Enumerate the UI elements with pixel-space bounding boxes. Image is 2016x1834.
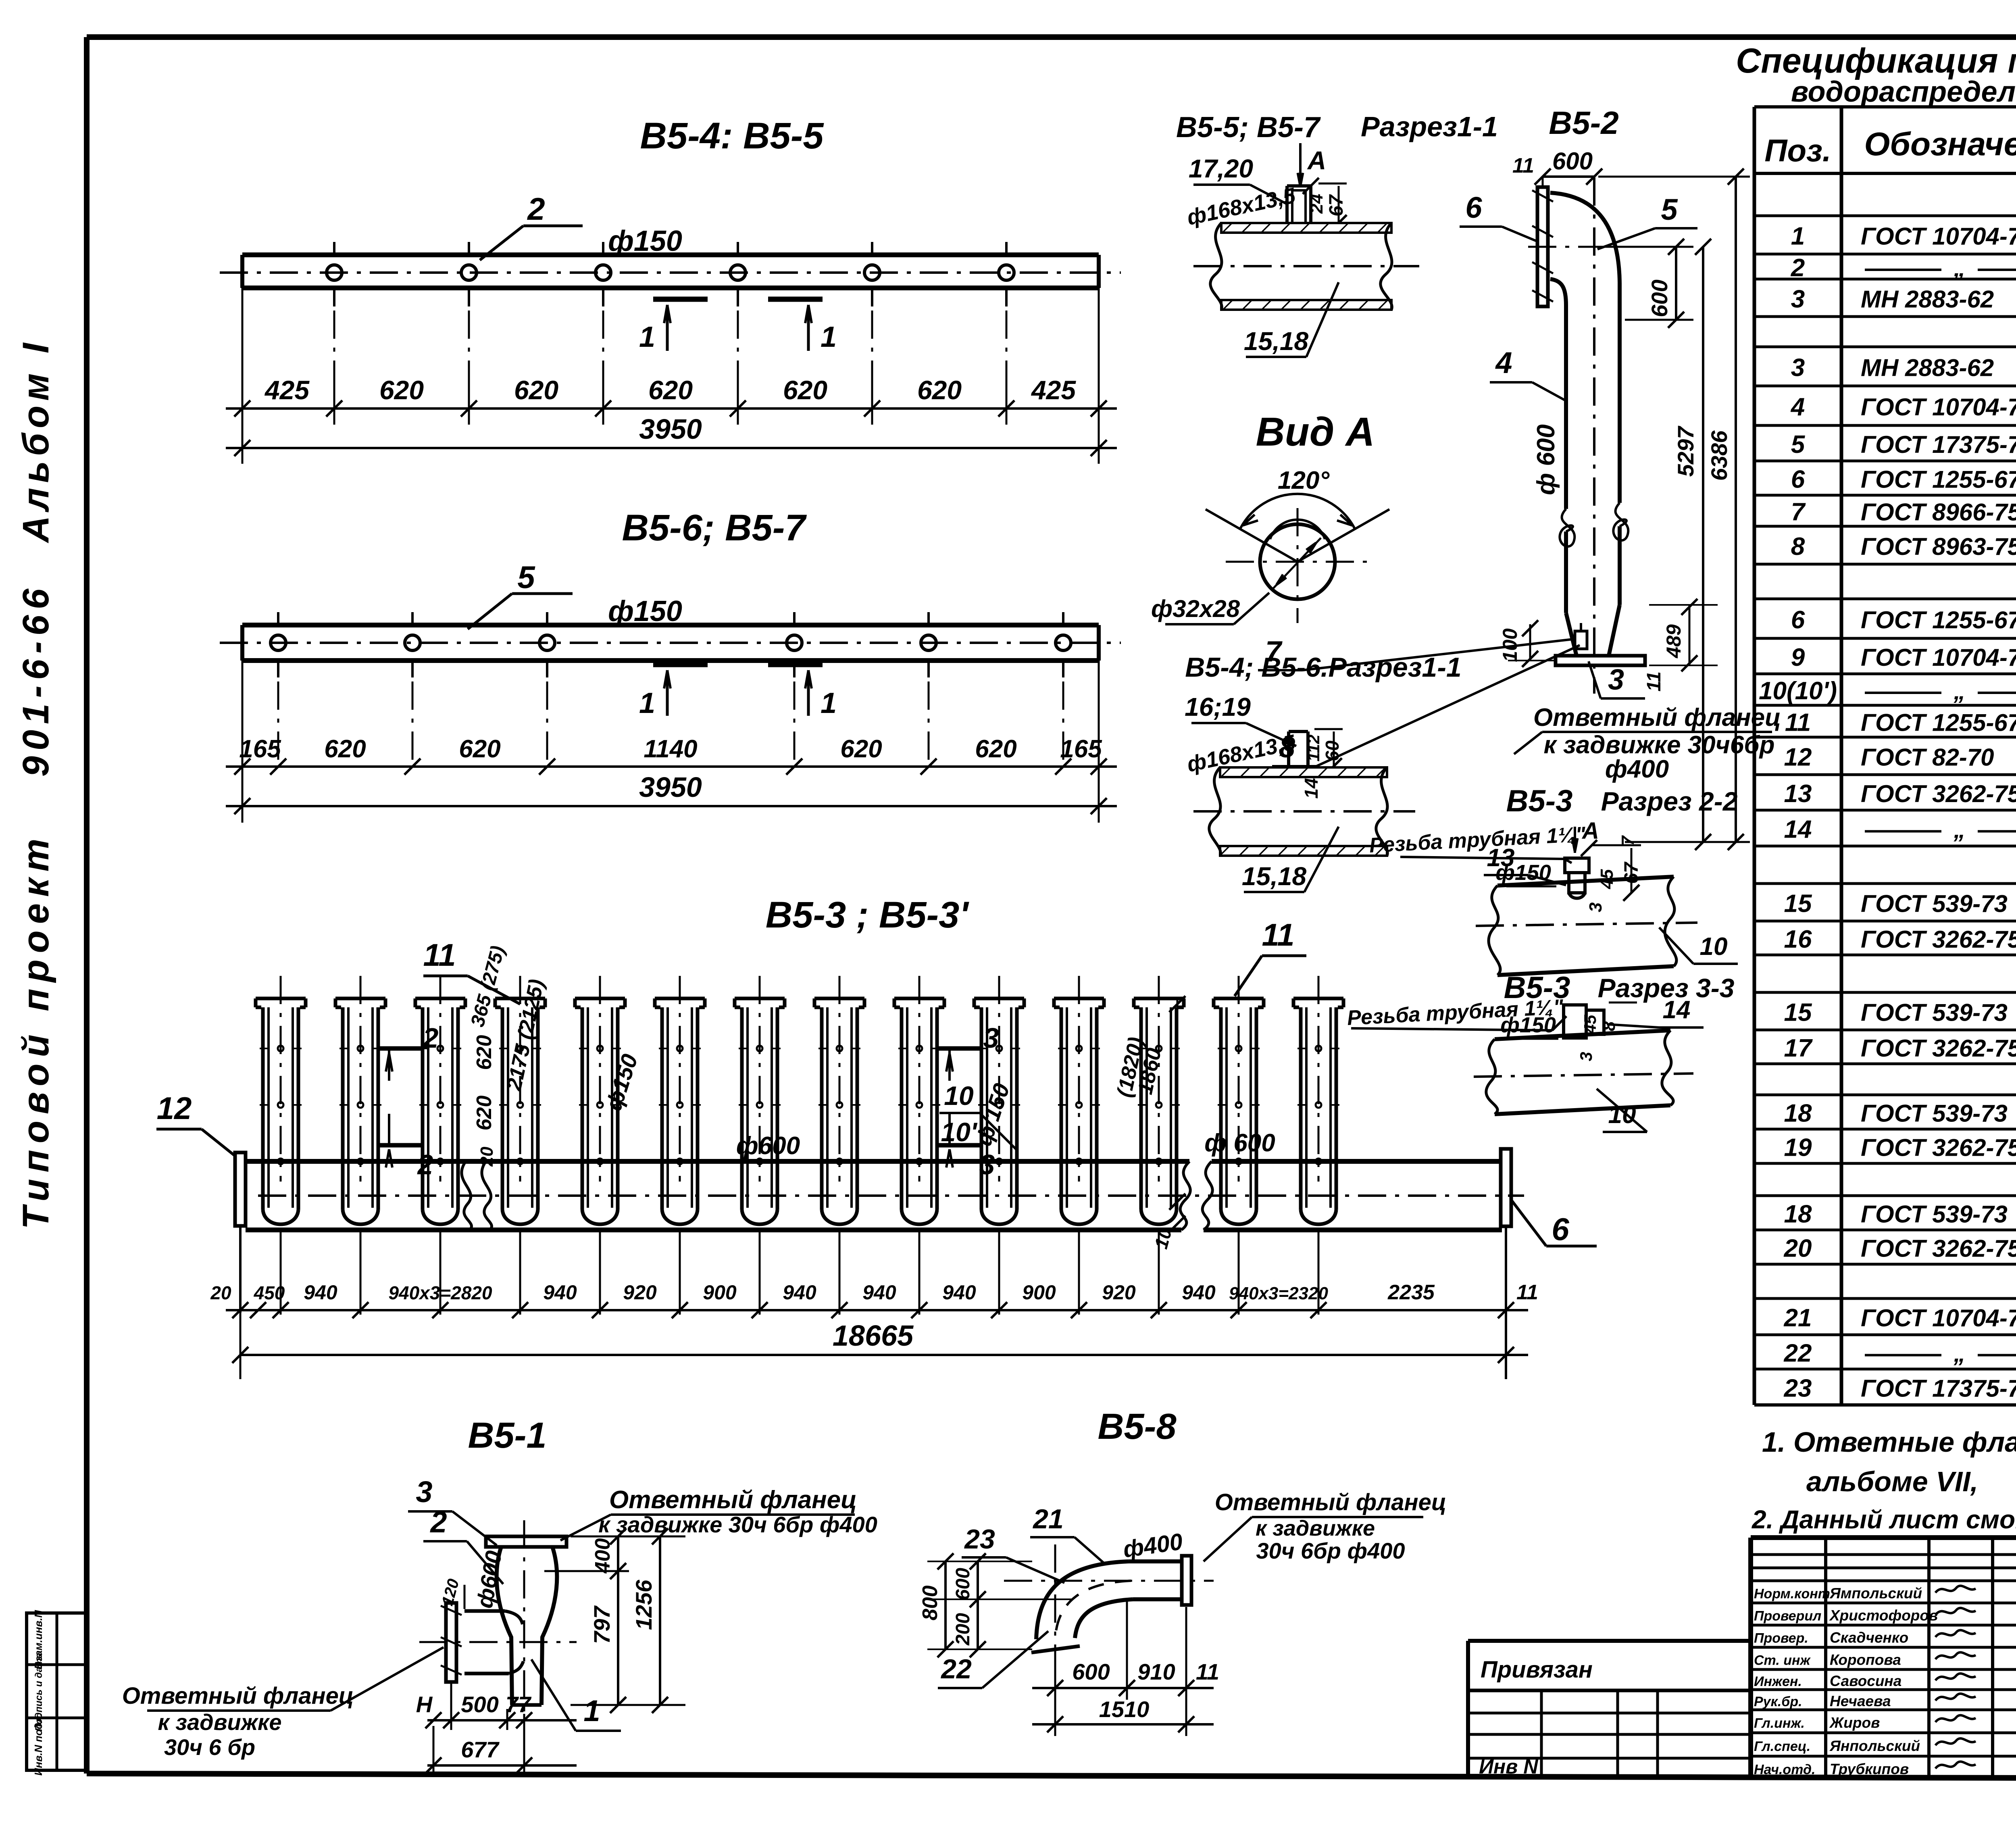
svg-text:11: 11 — [423, 937, 456, 973]
dimension extension lines B5-6/7 — [242, 661, 244, 823]
svg-text:Янпольский: Янпольский — [1829, 1738, 1920, 1754]
svg-text:В5-4: В5-5: В5-4: В5-5 — [640, 115, 824, 156]
section mark 3-3 upper — [937, 1046, 982, 1051]
svg-text:425: 425 — [264, 375, 310, 405]
svg-text:900: 900 — [703, 1281, 737, 1304]
svg-text:ф150: ф150 — [1500, 1013, 1556, 1037]
section mark 2-2 lower — [377, 1143, 421, 1148]
B5-2 elbow outer arc — [1550, 193, 1620, 282]
nozzle hole 5 on B5-4/B5-5 — [864, 265, 880, 280]
B5-1 horizontal dim line top — [571, 1536, 685, 1538]
svg-text:Н: Н — [416, 1692, 433, 1717]
B5-2 elbow inner arc — [1550, 279, 1566, 305]
svg-text:620: 620 — [917, 375, 962, 405]
svg-text:ГОСТ 3262-75: ГОСТ 3262-75 — [1861, 1035, 2016, 1062]
svg-text:11: 11 — [1516, 1281, 1538, 1304]
svg-text:водораспределительной системы: водораспределительной системы — [1791, 76, 2016, 108]
svg-text:60: 60 — [1322, 740, 1343, 761]
svg-text:3: 3 — [1586, 902, 1606, 912]
svg-text:940: 940 — [783, 1281, 816, 1304]
B5-2 elbow center horizontal centerline — [1528, 246, 1669, 248]
B5-8 right flange (pos 11) — [1182, 1556, 1191, 1605]
leader label 5 (pipe 168) — [468, 594, 512, 629]
svg-text:ГОСТ 10704-76: ГОСТ 10704-76 — [1861, 1305, 2016, 1332]
svg-text:ГОСТ 3262-75: ГОСТ 3262-75 — [1861, 780, 2016, 807]
manifold left end flange (pos 12) — [235, 1153, 246, 1226]
svg-text:30ч 6бр ф400: 30ч 6бр ф400 — [1256, 1538, 1405, 1563]
svg-text:10(10'): 10(10') — [1759, 677, 1837, 705]
svg-text:1: 1 — [1791, 223, 1805, 250]
svg-text:ф150: ф150 — [608, 225, 682, 257]
nozzle dims (3-3) — [1609, 1002, 1637, 1004]
nozzle hole 3 on B5-4/B5-5 — [596, 265, 611, 280]
svg-text:1256: 1256 — [631, 1580, 656, 1630]
svg-text:910: 910 — [1137, 1659, 1175, 1684]
svg-text:В5-3 ; В5-3': В5-3 ; В5-3' — [766, 894, 970, 936]
nozzle pipe 32 (pos 16,19) — [1287, 732, 1290, 767]
B5-8 left dims 800 600 200 — [927, 1561, 1032, 1562]
svg-text:Ответный фланец: Ответный фланец — [122, 1683, 354, 1709]
pipe break curl right (3-3) — [1662, 1030, 1673, 1105]
svg-text:21: 21 — [1032, 1504, 1064, 1534]
svg-text:Ответный фланец: Ответный фланец — [1215, 1489, 1447, 1515]
svg-text:20: 20 — [210, 1282, 231, 1303]
svg-text:А: А — [1307, 146, 1326, 175]
pipe cylinder (Razrez 3-3) — [1495, 1030, 1670, 1039]
svg-text:900: 900 — [1022, 1281, 1056, 1304]
privyazan table columns — [1540, 1690, 1543, 1779]
overall dimension 3950 line — [226, 447, 1117, 449]
svg-text:Ответный фланец: Ответный фланец — [609, 1486, 857, 1514]
nozzle hole 1 on B5-4/B5-5 — [327, 265, 342, 280]
B5-1 bottom dim H 500 77 — [427, 1719, 577, 1721]
nozzle dims (2-2) — [1593, 844, 1641, 846]
svg-text:13: 13 — [1784, 780, 1812, 808]
B5-2 dim 100 — [1529, 624, 1531, 661]
spec table grid — [1753, 107, 1756, 1405]
svg-text:11: 11 — [1262, 917, 1295, 952]
svg-text:ф150: ф150 — [1495, 861, 1551, 885]
svg-text:Гл.инж.: Гл.инж. — [1754, 1716, 1805, 1731]
svg-text:112: 112 — [1304, 735, 1323, 762]
svg-text:30ч 6 бр: 30ч 6 бр — [164, 1734, 255, 1760]
riser 7 (pipe 159) on manifold — [735, 997, 785, 1000]
svg-text:Проверил: Проверил — [1754, 1609, 1821, 1624]
B5-1 dim 1256 — [659, 1536, 661, 1705]
svg-text:Скадченко: Скадченко — [1830, 1630, 1908, 1646]
svg-text:24: 24 — [1307, 194, 1327, 214]
svg-text:45: 45 — [1581, 1015, 1599, 1034]
pipe B5-6/B5-7 body — [242, 623, 1099, 627]
pipe end break right (lower razrez) — [1376, 767, 1387, 856]
B5-8 elbow dashed inner curve — [1055, 1581, 1131, 1638]
svg-text:Инжен.: Инжен. — [1754, 1674, 1802, 1689]
svg-text:14: 14 — [1301, 778, 1322, 798]
riser 10 (pipe 159) on manifold — [974, 997, 1024, 1000]
title block top small rows — [1751, 1553, 2016, 1556]
svg-text:11: 11 — [1196, 1659, 1219, 1684]
section mark 1-1 left (B5-4/5) — [653, 297, 708, 302]
svg-text:17: 17 — [1784, 1034, 1813, 1062]
riser 3 (pipe 159) on manifold — [415, 997, 465, 1000]
B5-8 total dim 1510 — [1032, 1723, 1214, 1726]
svg-text:Типовой проект: Типовой проект — [15, 832, 56, 1230]
svg-text:„: „ — [1954, 678, 1966, 704]
svg-text:ГОСТ 3262-75: ГОСТ 3262-75 — [1861, 1235, 2016, 1262]
title block stamp columns — [1824, 1538, 1827, 1779]
section mark 2-2 upper — [377, 1046, 421, 1051]
svg-text:6386: 6386 — [1706, 430, 1732, 481]
svg-text:ГОСТ 10704-76: ГОСТ 10704-76 — [1861, 644, 2016, 671]
sidebar bottom mini table — [27, 1613, 87, 1770]
pipe centerline (2-2) — [1476, 923, 1697, 926]
svg-text:6: 6 — [1465, 191, 1482, 224]
svg-text:3: 3 — [1577, 1052, 1595, 1061]
svg-text:3: 3 — [979, 1149, 995, 1180]
nozzle hole 3 on B5-6/B5-7 — [539, 635, 555, 650]
svg-text:2. Данный лист смотреть сов: 2. Данный лист смотреть совместно с лист… — [1752, 1505, 2016, 1534]
section mark 1-1 right (B5-4/5) — [768, 297, 823, 302]
svg-text:1: 1 — [639, 321, 655, 353]
svg-text:ГОСТ 1255-67: ГОСТ 1255-67 — [1861, 709, 2016, 736]
pipe cylinder (Razrez 2-2) — [1497, 877, 1674, 886]
svg-text:23: 23 — [964, 1524, 995, 1555]
svg-text:ГОСТ 3262-75: ГОСТ 3262-75 — [1861, 1134, 2016, 1161]
svg-text:Провер.: Провер. — [1754, 1631, 1808, 1646]
svg-text:Жиров: Жиров — [1829, 1715, 1880, 1731]
dimension line 165/620/1140 B5-6/7 — [226, 765, 1117, 768]
svg-text:11: 11 — [1643, 671, 1665, 692]
svg-text:620: 620 — [473, 1096, 496, 1131]
svg-text:940: 940 — [942, 1281, 976, 1304]
riser 8 (pipe 159) on manifold — [814, 997, 864, 1000]
svg-text:20: 20 — [477, 1146, 497, 1167]
nozzle hole 2 on B5-6/B5-7 — [405, 635, 420, 650]
svg-text:ГОСТ 1255-67: ГОСТ 1255-67 — [1861, 466, 2016, 493]
svg-text:7: 7 — [1791, 498, 1806, 526]
svg-text:10': 10' — [941, 1117, 977, 1147]
svg-text:Ст. инж: Ст. инж — [1754, 1653, 1811, 1668]
svg-text:920: 920 — [1102, 1281, 1136, 1304]
svg-text:3: 3 — [983, 1022, 999, 1054]
B5-1 bottom dim 677 — [427, 1764, 577, 1767]
B5-8 centerline horizontal — [1004, 1580, 1214, 1582]
svg-text:450: 450 — [254, 1282, 285, 1303]
svg-text:2: 2 — [422, 1022, 439, 1054]
svg-text:альбоме VII,: альбоме VII, — [1806, 1466, 1978, 1497]
svg-text:Разрез 2-2: Разрез 2-2 — [1601, 786, 1738, 816]
Vid A ф32 diagonal dimension — [1272, 538, 1321, 590]
svg-text:3950: 3950 — [639, 413, 702, 445]
pipe wall hatched (Razrez 1-1) — [1221, 223, 1391, 233]
svg-text:В5-4; В5-6.Разрез1-1: В5-4; В5-6.Разрез1-1 — [1185, 652, 1461, 683]
svg-text:ГОСТ 539-73: ГОСТ 539-73 — [1861, 999, 2008, 1026]
Vid A dimension arc — [1240, 494, 1355, 529]
svg-text:к задвижке 30ч 6бр ф400: к задвижке 30ч 6бр ф400 — [598, 1512, 877, 1537]
pipe break curl left (2-2) — [1489, 886, 1500, 975]
nozzle pipe 32 (pos 17,20) — [1285, 186, 1289, 223]
svg-text:1140: 1140 — [644, 735, 697, 763]
B5-8 elbow inner arc — [1075, 1599, 1133, 1638]
svg-text:МН 2883-62: МН 2883-62 — [1861, 354, 1994, 381]
svg-text:800: 800 — [918, 1586, 942, 1621]
svg-text:Альбом I: Альбом I — [15, 338, 56, 544]
svg-text:940: 940 — [1182, 1281, 1216, 1304]
nozzle hole 4 on B5-4/B5-5 — [730, 265, 746, 280]
nozzle pipe32 with thread (2-2) — [1565, 858, 1589, 873]
B5-2 pipe break loops — [1560, 509, 1574, 546]
svg-text:18: 18 — [1784, 1200, 1812, 1228]
svg-text:500: 500 — [461, 1692, 498, 1717]
title block outer frame — [1751, 1535, 2016, 1540]
svg-text:23: 23 — [1784, 1375, 1812, 1403]
svg-text:19: 19 — [1784, 1134, 1812, 1162]
svg-text:17,20: 17,20 — [1189, 154, 1253, 183]
B5-2 right dims 5297 6386 — [1702, 247, 1704, 842]
pipe centerline (lower razrez) — [1193, 810, 1415, 813]
svg-text:ф600: ф600 — [736, 1132, 800, 1160]
B5-2 vertical centerline — [1593, 177, 1595, 694]
B5-8 stub end line — [1031, 1646, 1080, 1653]
nozzle hole 5 on B5-6/B5-7 — [921, 635, 936, 650]
svg-text:6: 6 — [1552, 1211, 1569, 1247]
manifold main pipe — [246, 1159, 1189, 1164]
svg-text:Поз.: Поз. — [1764, 133, 1831, 168]
svg-text:В5-1: В5-1 — [468, 1415, 546, 1456]
svg-text:489: 489 — [1662, 624, 1685, 659]
svg-text:940х3=2320: 940х3=2320 — [1229, 1284, 1328, 1303]
svg-text:18665: 18665 — [833, 1320, 914, 1352]
svg-text:„: „ — [1954, 255, 1966, 281]
svg-text:620: 620 — [840, 735, 882, 763]
svg-text:5: 5 — [1661, 193, 1678, 226]
svg-text:9: 9 — [1791, 644, 1805, 671]
svg-text:4: 4 — [1790, 393, 1805, 421]
svg-text:к задвижке: к задвижке — [158, 1709, 281, 1735]
svg-text:11: 11 — [1512, 154, 1534, 177]
manifold pipe break squiggle right — [1180, 1161, 1190, 1230]
svg-text:21: 21 — [1784, 1304, 1812, 1332]
svg-text:Вид А: Вид А — [1256, 409, 1375, 454]
svg-text:ГОСТ 10704-76: ГОСТ 10704-76 — [1861, 223, 2016, 250]
svg-text:ГОСТ 1255-67: ГОСТ 1255-67 — [1861, 606, 2016, 634]
svg-text:920: 920 — [623, 1281, 657, 1304]
manifold pipe centerline — [258, 1194, 1524, 1197]
svg-text:600: 600 — [1647, 279, 1672, 317]
section mark 1-1 right (B5-6/7) — [768, 662, 823, 667]
nozzle hole 2 on B5-4/B5-5 — [461, 265, 477, 280]
svg-text:10: 10 — [944, 1081, 974, 1111]
B5-1 reducer cone (pos 1) — [497, 1547, 512, 1705]
svg-text:МН 2883-62: МН 2883-62 — [1861, 286, 1994, 313]
sheet frame — [87, 34, 2016, 40]
svg-text:к задвижке: к задвижке — [1256, 1516, 1375, 1540]
pipe B5-6/B5-7 centerline — [220, 642, 1121, 644]
svg-text:620: 620 — [473, 1035, 496, 1070]
svg-text:Савосина: Савосина — [1830, 1673, 1901, 1689]
mufta (3-3, pos 14) — [1564, 1005, 1586, 1038]
svg-text:11: 11 — [1785, 709, 1811, 737]
svg-text:22: 22 — [1784, 1340, 1812, 1367]
svg-text:400: 400 — [591, 1538, 614, 1574]
svg-text:5297: 5297 — [1673, 425, 1698, 477]
svg-text:Спецификация материалов на: Спецификация материалов на детали — [1736, 42, 2016, 80]
svg-text:940: 940 — [304, 1281, 337, 1304]
svg-text:600: 600 — [1552, 148, 1593, 175]
section mark 1-1 left (B5-6/7) — [653, 662, 708, 667]
svg-text:15,18: 15,18 — [1242, 862, 1307, 891]
svg-text:16;19: 16;19 — [1185, 692, 1251, 721]
B5-2 dims 489 and 11 right — [1649, 604, 1718, 606]
svg-text:2: 2 — [1791, 254, 1805, 282]
svg-text:12: 12 — [1784, 744, 1812, 771]
section A arrow line — [1299, 143, 1302, 188]
Vid A inner wall arc — [1270, 520, 1325, 539]
svg-text:к задвижке 30ч6бр: к задвижке 30ч6бр — [1543, 731, 1774, 759]
privyazan table frame — [1468, 1639, 1751, 1643]
B5-8 elbow outer arc (pos 23) — [1036, 1561, 1129, 1639]
B5-2 mufta with plug (pos 7,8) — [1575, 631, 1587, 649]
svg-text:67: 67 — [1326, 194, 1347, 217]
svg-text:2: 2 — [527, 191, 545, 227]
svg-text:ГОСТ 539-73: ГОСТ 539-73 — [1861, 1100, 2008, 1127]
pipe break curl left (3-3) — [1486, 1039, 1497, 1114]
svg-text:5: 5 — [517, 559, 535, 595]
svg-text:20: 20 — [1784, 1235, 1812, 1263]
svg-text:1: 1 — [583, 1694, 600, 1728]
riser 12 (pipe 159) on manifold — [1134, 997, 1184, 1000]
svg-text:1: 1 — [821, 687, 837, 719]
B5-8 horizontal pipe (pos 21) — [1129, 1559, 1182, 1563]
svg-text:4: 4 — [1495, 346, 1512, 379]
svg-text:15: 15 — [1784, 999, 1812, 1027]
svg-text:77: 77 — [506, 1692, 532, 1717]
svg-text:2: 2 — [417, 1149, 433, 1180]
B5-2 top dim 600 line — [1542, 177, 1544, 185]
svg-text:ф400: ф400 — [1605, 755, 1669, 783]
svg-text:600: 600 — [952, 1568, 974, 1600]
svg-text:Инв.N подл.: Инв.N подл. — [32, 1713, 44, 1776]
svg-text:ГОСТ 17375-77: ГОСТ 17375-77 — [1861, 431, 2016, 458]
svg-text:Коропова: Коропова — [1830, 1652, 1901, 1668]
riser 4 (pipe 159) on manifold — [495, 997, 545, 1000]
svg-text:10: 10 — [1608, 1101, 1636, 1129]
riser 13 (pipe 159) on manifold — [1214, 997, 1264, 1000]
dimension extension lines B5-4/5 — [242, 288, 244, 464]
svg-text:6: 6 — [1791, 606, 1805, 634]
riser 11 (pipe 159) on manifold — [1054, 997, 1104, 1000]
nozzle hole 4 on B5-6/B5-7 — [787, 635, 802, 650]
svg-text:2: 2 — [429, 1505, 447, 1539]
B5-2 bottom reducer (pos 3) — [1566, 613, 1577, 656]
svg-text:1: 1 — [639, 687, 655, 719]
pipe B5-4/B5-5 centerline — [220, 271, 1121, 274]
B5-1 vertical centerline — [523, 1520, 525, 1714]
nozzle hole 6 on B5-6/B5-7 — [1056, 635, 1071, 650]
svg-text:940: 940 — [862, 1281, 896, 1304]
nozzle small dims — [1318, 183, 1347, 185]
svg-text:425: 425 — [1031, 375, 1076, 405]
svg-text:1. Ответные фланцы к з: 1. Ответные фланцы к задвижкам учтены в — [1762, 1426, 2016, 1458]
svg-text:12: 12 — [157, 1090, 192, 1126]
svg-text:1: 1 — [821, 321, 837, 353]
svg-text:Гл.спец.: Гл.спец. — [1754, 1739, 1810, 1754]
svg-text:15,18: 15,18 — [1244, 327, 1309, 356]
svg-text:Трубкипов: Трубкипов — [1830, 1761, 1909, 1778]
svg-text:14: 14 — [1784, 816, 1812, 844]
B5-1 dim 400 — [617, 1536, 619, 1705]
pipe end break left (lower razrez) — [1209, 767, 1220, 856]
privyazan table rows — [1468, 1712, 1751, 1715]
svg-text:797: 797 — [589, 1605, 614, 1644]
B5-1 side outlet centerline — [419, 1641, 577, 1643]
svg-text:Христофоров: Христофоров — [1829, 1607, 1938, 1624]
svg-text:В5-6; В5-7: В5-6; В5-7 — [622, 507, 807, 548]
B5-2 right dim 600 — [1598, 246, 1693, 248]
manifold bottom dim line — [226, 1309, 1528, 1311]
svg-text:ГОСТ 8966-75: ГОСТ 8966-75 — [1861, 499, 2016, 526]
svg-text:„: „ — [1954, 817, 1966, 843]
pipe break curl right (2-2) — [1665, 877, 1677, 966]
pipe centerline (3-3) — [1474, 1073, 1693, 1077]
svg-text:ГОСТ 3262-75: ГОСТ 3262-75 — [1861, 926, 2016, 953]
svg-text:600: 600 — [1072, 1659, 1110, 1684]
nozzle hole 6 on B5-4/B5-5 — [999, 265, 1014, 280]
manifold pipe break squiggle left — [462, 1161, 472, 1230]
svg-text:Ямпольский: Ямпольский — [1829, 1585, 1922, 1602]
svg-text:„: „ — [1954, 1341, 1966, 1367]
nozzle hole 1 on B5-6/B5-7 — [271, 635, 286, 650]
svg-text:В5-8: В5-8 — [1098, 1407, 1176, 1447]
svg-text:3950: 3950 — [639, 771, 702, 803]
svg-text:940: 940 — [543, 1281, 577, 1304]
pipe B5-4/B5-5 body — [242, 252, 1099, 257]
leader label 2 (pipe 426) — [480, 226, 523, 260]
svg-text:3: 3 — [1608, 664, 1624, 696]
B5-8 centerline vertical — [1054, 1544, 1056, 1665]
svg-text:1510: 1510 — [1099, 1696, 1150, 1722]
pipe wall hatched (Razrez 1-1 lower) — [1220, 767, 1387, 777]
svg-text:ф150: ф150 — [608, 595, 682, 627]
svg-text:677: 677 — [461, 1737, 500, 1762]
svg-text:Рук.бр.: Рук.бр. — [1754, 1694, 1802, 1709]
svg-text:2235: 2235 — [1387, 1281, 1435, 1304]
B5-2 top flange 600 (pos 6) — [1537, 187, 1548, 306]
pipe end break left (Razrez 1-1) — [1210, 223, 1222, 310]
B5-1 small dim 120 — [464, 1585, 466, 1609]
Vid A outer circle — [1260, 524, 1335, 599]
pipe end break right (Razrez 1-1) — [1381, 223, 1392, 310]
B5-2 vertical pipe (pos 4) — [1564, 305, 1568, 509]
B5-1 side flange (left) — [446, 1603, 456, 1682]
svg-text:В5-3: В5-3 — [1506, 784, 1573, 818]
pipe centerline (Razrez 1-1) — [1193, 265, 1419, 267]
riser 5 (pipe 159) on manifold — [575, 997, 625, 1000]
B5-8 bottom dim 600 910 11 — [1032, 1687, 1214, 1689]
svg-text:18: 18 — [1784, 1100, 1812, 1127]
section mark 3-3 lower — [937, 1143, 982, 1148]
svg-text:5: 5 — [1791, 431, 1806, 458]
B5-2 bottom flange plate — [1556, 656, 1645, 665]
svg-text:6: 6 — [1791, 466, 1805, 494]
svg-text:ГОСТ 10704-76: ГОСТ 10704-76 — [1861, 394, 2016, 421]
nozzle dims 112/54/60 — [1314, 728, 1343, 730]
svg-text:В5-2: В5-2 — [1549, 105, 1618, 141]
B5-1 side outlet pipe (pos 2) — [464, 1609, 505, 1613]
svg-text:ГОСТ 539-73: ГОСТ 539-73 — [1861, 1201, 2008, 1228]
svg-text:620: 620 — [379, 375, 424, 405]
svg-text:В5-5; В5-7: В5-5; В5-7 — [1176, 111, 1321, 144]
